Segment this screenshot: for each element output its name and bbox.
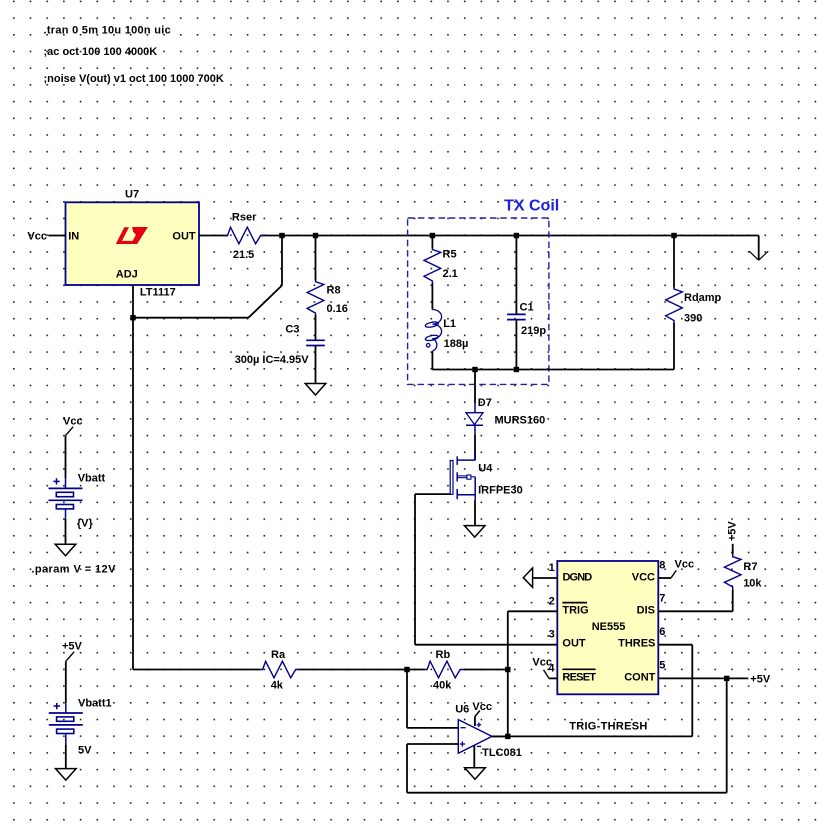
capacitor C3 [306, 340, 325, 345]
junction Rb-TRIG [505, 667, 510, 672]
svg-text:Rser: Rser [232, 212, 257, 224]
junction Ra-Rb [404, 667, 409, 672]
label Rser [232, 212, 257, 224]
junction Rser-R8 A [279, 233, 284, 238]
wire R8 to C3 [315, 315, 317, 340]
wire ADJ to Ra [133, 669, 260, 671]
diode D7 [466, 403, 483, 435]
svg-text:2.1: 2.1 [443, 268, 458, 280]
spice directive ;ac [44, 46, 158, 58]
junction Rdamp top [671, 233, 676, 238]
svg-text:188µ: 188µ [444, 338, 469, 350]
svg-text:Rb: Rb [436, 649, 451, 661]
capacitor C1 [507, 314, 526, 319]
label 40k [433, 680, 452, 692]
wire bottom feedback rail [407, 678, 727, 792]
net flag Vcc at U6 [472, 701, 492, 713]
label {V} [77, 518, 94, 530]
voltage source Vbatt [49, 478, 83, 519]
svg-text:+5V: +5V [727, 521, 739, 542]
svg-text:5V: 5V [78, 745, 92, 757]
svg-text:OUT: OUT [172, 231, 196, 243]
svg-text:219p: 219p [521, 325, 546, 337]
wire +5V flag to Vbatt1 [65, 661, 67, 703]
svg-text:U7: U7 [125, 189, 139, 201]
svg-text:;ac oct 100 100 4000K: ;ac oct 100 100 4000K [44, 46, 158, 58]
wire DGND pin [533, 577, 558, 579]
junction C1 bottom [514, 367, 519, 372]
wire D7 cathode to U4 drain [474, 435, 476, 460]
wire U4 source to ground [474, 500, 476, 525]
label Ra [271, 649, 286, 661]
TX Coil dashed boundary [408, 218, 549, 384]
junction C1 top [514, 233, 519, 238]
label 4k [271, 680, 284, 692]
svg-text:U4: U4 [478, 462, 493, 474]
junction D7 tap [472, 367, 477, 372]
output arrow marker [749, 236, 768, 261]
ground below C3 [305, 384, 326, 396]
svg-text:TRIG-THRESH: TRIG-THRESH [569, 721, 647, 733]
label 0.16 [327, 303, 348, 315]
label R7 [743, 561, 757, 573]
label U4 [478, 462, 493, 474]
svg-text:+5V: +5V [62, 641, 83, 653]
voltage regulator U7 box [66, 202, 200, 285]
wire TX coil bottom rail [432, 369, 674, 371]
ground below Vbatt1 [56, 769, 77, 781]
junction R5 top [430, 233, 435, 238]
net flag Vcc at NE555 VCC [658, 558, 694, 578]
svg-text:Rdamp: Rdamp [684, 292, 722, 304]
op-amp U6 [458, 711, 492, 768]
svg-text:DGND: DGND [563, 572, 593, 584]
svg-text:ADJ: ADJ [116, 268, 138, 280]
svg-text:R5: R5 [443, 249, 457, 261]
resistor R5 [424, 247, 441, 284]
svg-text:R7: R7 [743, 561, 757, 573]
NE555 pin numbers [548, 560, 665, 675]
ground left at DGND [523, 568, 532, 587]
net flag Vcc at U7 input [27, 231, 65, 243]
net flag +5V above R7 [727, 521, 739, 542]
label Rdamp [684, 292, 722, 304]
label 10k [743, 578, 762, 590]
label 188u [444, 338, 469, 350]
wire Vcc flag to Vbatt [65, 436, 67, 479]
wire CONT pin [658, 677, 748, 679]
wire Rdamp bottom [673, 323, 675, 370]
label TX Coil [504, 198, 559, 215]
wire Rdamp top [673, 236, 675, 288]
label 219p [521, 325, 546, 337]
label L1 [443, 318, 456, 330]
svg-text:TLC081: TLC081 [482, 747, 522, 759]
LT logo inside U7 [116, 227, 148, 244]
svg-text:Vcc: Vcc [532, 657, 552, 669]
svg-text:0.16: 0.16 [327, 303, 348, 315]
junction TRIG-THRESH [505, 734, 510, 739]
svg-text:NE555: NE555 [592, 621, 626, 633]
inductor L1 [425, 310, 442, 352]
wire R8 top [315, 236, 317, 281]
label C1 [520, 301, 534, 313]
wire DIS to R7 [658, 590, 732, 612]
svg-text:.tran 0 5m 10u 100n uic: .tran 0 5m 10u 100n uic [44, 25, 172, 37]
spice directive .param [31, 564, 116, 576]
svg-text:VCC: VCC [632, 572, 655, 584]
resistor Rser [225, 227, 263, 244]
svg-text:THRES: THRES [618, 638, 655, 650]
svg-text:RESET: RESET [562, 672, 596, 684]
label 21.5 [233, 249, 254, 261]
label U6 [455, 704, 469, 716]
svg-text:6: 6 [659, 626, 665, 638]
wire Vbatt to ground [65, 519, 67, 545]
svg-text:{V}: {V} [77, 518, 94, 530]
svg-text:4k: 4k [271, 680, 284, 692]
svg-text:.param V = 12V: .param V = 12V [31, 564, 116, 576]
svg-text:3: 3 [549, 629, 555, 641]
resistor R8 [307, 280, 324, 317]
svg-text:Vcc: Vcc [63, 416, 83, 428]
ground below Vbatt [55, 544, 76, 556]
net flag +5V above Vbatt1 [62, 641, 83, 662]
resistor Rb [425, 661, 463, 678]
resistor Ra [260, 661, 298, 678]
spice directive .tran [44, 25, 172, 37]
resistor Rdamp [666, 287, 683, 324]
svg-text:300µ IC=4.95V: 300µ IC=4.95V [235, 354, 310, 366]
wire C1 bottom [515, 320, 517, 370]
svg-text:390: 390 [684, 312, 702, 324]
label 5V [78, 745, 92, 757]
junction CONT +5V [724, 676, 729, 681]
svg-text:Ra: Ra [271, 649, 286, 661]
svg-text:Vcc: Vcc [472, 701, 492, 713]
svg-text:CONT: CONT [624, 672, 655, 684]
wire R7 top [732, 544, 734, 555]
svg-text:L1: L1 [443, 318, 456, 330]
svg-text:TX Coil: TX Coil [504, 198, 559, 215]
wire R5 to L1 [431, 283, 433, 309]
label 300u IC=4.95V [235, 354, 310, 366]
svg-text:;noise V(out) v1 oct 100 1000: ;noise V(out) v1 oct 100 1000 700K [44, 73, 224, 85]
svg-text:TRIG: TRIG [562, 605, 588, 617]
wire Rb to TRIG net [463, 669, 508, 671]
wire THRES pin [658, 645, 692, 737]
wire U6 output [492, 735, 508, 737]
svg-text:DIS: DIS [637, 605, 655, 617]
label +5V at CONT [750, 673, 771, 685]
svg-text:D7: D7 [478, 397, 492, 409]
svg-text:IN: IN [68, 231, 79, 243]
net flag Vcc at NE555 RESET [532, 657, 557, 679]
label 390 [684, 312, 702, 324]
label U7 [125, 189, 139, 201]
svg-text:2: 2 [549, 595, 555, 607]
wire Ra to Rb [299, 669, 425, 671]
svg-text:Vbatt: Vbatt [78, 473, 106, 485]
wire top rail OUT net [261, 235, 759, 237]
wire TRIG-THRESH horizontal [492, 735, 692, 737]
svg-text:21.5: 21.5 [233, 249, 254, 261]
label Rb [436, 649, 451, 661]
wire ADJ vertical [132, 285, 134, 670]
svg-text:5: 5 [659, 660, 665, 672]
timer IC NE555 [557, 561, 658, 694]
wire U4 gate stub [415, 493, 450, 495]
resistor R7 [724, 555, 741, 590]
svg-text:C3: C3 [285, 324, 299, 336]
svg-text:1: 1 [549, 562, 555, 574]
junction R8 top [313, 233, 318, 238]
wire non-inverting input [407, 744, 458, 793]
svg-text:40k: 40k [433, 680, 452, 692]
label TLC081 [482, 747, 522, 759]
label D7 [478, 397, 492, 409]
ground below U6 [465, 768, 486, 780]
label Vbatt1 [78, 698, 112, 710]
svg-text:Vcc: Vcc [675, 558, 695, 570]
wire Vbatt1 to ground [65, 745, 67, 769]
wire L1 bottom [431, 351, 433, 369]
svg-text:+5V: +5V [750, 673, 771, 685]
svg-text:8: 8 [659, 560, 665, 572]
wire C3 to ground [315, 346, 317, 384]
label IRFPE30 [478, 484, 523, 496]
svg-text:U6: U6 [455, 704, 469, 716]
label R8 [327, 285, 341, 297]
net flag Vcc above Vbatt [63, 416, 83, 436]
wire TRIG net [508, 611, 558, 736]
wire C1 top [515, 236, 517, 315]
label R5 [443, 249, 457, 261]
junction ADJ node [130, 315, 135, 320]
wire U7 OUT pin [199, 235, 228, 237]
wire to D7 anode [474, 370, 476, 404]
voltage source Vbatt1 [49, 703, 83, 745]
label MURS160 [495, 415, 546, 427]
svg-text:OUT: OUT [562, 638, 586, 650]
wire gate net vertical [414, 494, 416, 645]
label TRIG-THRESH [569, 721, 647, 733]
wire inverting input [407, 670, 458, 728]
label Vbatt [78, 473, 106, 485]
svg-text:C1: C1 [520, 301, 534, 313]
label C3 [285, 324, 299, 336]
svg-text:R8: R8 [327, 285, 341, 297]
svg-text:Vbatt1: Vbatt1 [78, 698, 112, 710]
ground below U4 [464, 526, 485, 538]
svg-text:7: 7 [659, 593, 665, 605]
svg-text:10k: 10k [743, 578, 762, 590]
wire feedback OUT to ADJ node [133, 236, 282, 318]
svg-text:MURS160: MURS160 [495, 415, 546, 427]
label LT1117 [140, 286, 176, 298]
nmos transistor U4 [450, 451, 475, 500]
wire gate net to NE555 OUT [415, 644, 557, 646]
wire R5 top [431, 236, 433, 249]
svg-text:LT1117: LT1117 [140, 286, 176, 298]
label 2.1 [443, 268, 458, 280]
svg-text:IRFPE30: IRFPE30 [478, 484, 523, 496]
svg-text:Vcc: Vcc [27, 231, 47, 243]
spice directive ;noise [44, 73, 224, 85]
